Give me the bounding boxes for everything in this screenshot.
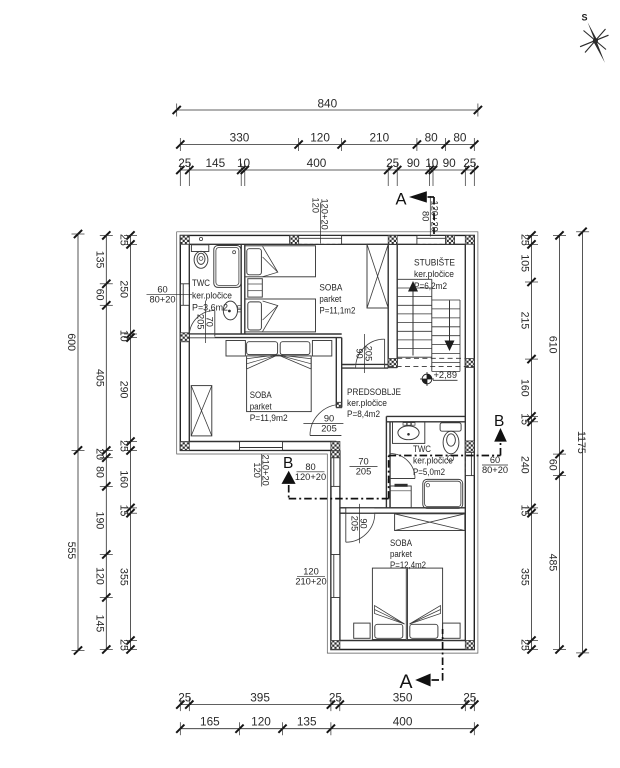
- svg-text:105: 105: [519, 254, 531, 272]
- svg-text:P=11,1m2: P=11,1m2: [319, 306, 355, 317]
- svg-text:B: B: [494, 413, 504, 430]
- svg-text:205: 205: [196, 314, 206, 330]
- svg-text:330: 330: [230, 131, 250, 145]
- svg-text:15: 15: [118, 505, 130, 517]
- svg-text:135: 135: [93, 251, 105, 269]
- svg-text:P=8,4m2: P=8,4m2: [347, 409, 380, 420]
- svg-text:205: 205: [356, 467, 372, 477]
- svg-text:60: 60: [157, 285, 167, 295]
- svg-text:S: S: [582, 13, 588, 23]
- svg-text:20: 20: [93, 448, 105, 460]
- svg-text:120: 120: [251, 715, 271, 729]
- svg-text:290: 290: [118, 381, 130, 399]
- svg-text:parket: parket: [250, 402, 272, 413]
- svg-text:25: 25: [118, 234, 130, 246]
- svg-text:90: 90: [355, 348, 365, 358]
- svg-text:555: 555: [65, 542, 77, 560]
- svg-text:parket: parket: [319, 294, 341, 305]
- svg-text:P=12,4m2: P=12,4m2: [390, 560, 426, 571]
- svg-text:145: 145: [205, 156, 225, 170]
- svg-text:205: 205: [321, 424, 337, 434]
- svg-text:120: 120: [311, 198, 321, 214]
- svg-text:90: 90: [443, 156, 457, 170]
- svg-text:240: 240: [519, 456, 531, 474]
- svg-text:205: 205: [364, 346, 374, 362]
- svg-text:25: 25: [463, 156, 477, 170]
- svg-text:485: 485: [547, 554, 559, 572]
- svg-text:60: 60: [547, 459, 559, 471]
- svg-text:90: 90: [358, 518, 368, 528]
- svg-text:165: 165: [200, 715, 220, 729]
- svg-text:80+20: 80+20: [149, 295, 175, 305]
- svg-text:210+20: 210+20: [295, 577, 326, 587]
- svg-text:+2,89: +2,89: [434, 370, 458, 380]
- svg-text:90: 90: [407, 156, 421, 170]
- svg-text:10: 10: [118, 330, 130, 342]
- svg-text:70: 70: [205, 317, 215, 327]
- svg-text:210: 210: [369, 131, 389, 145]
- svg-text:60: 60: [93, 289, 105, 301]
- svg-text:P=3,6m2: P=3,6m2: [192, 303, 228, 314]
- svg-text:25: 25: [519, 234, 531, 246]
- svg-text:10: 10: [425, 156, 439, 170]
- svg-text:80: 80: [305, 462, 315, 472]
- svg-text:80: 80: [425, 131, 439, 145]
- svg-text:15: 15: [519, 413, 531, 425]
- svg-text:120+20: 120+20: [320, 199, 330, 230]
- svg-text:25: 25: [178, 691, 192, 705]
- svg-text:ker.pločice: ker.pločice: [192, 290, 232, 301]
- svg-text:355: 355: [519, 568, 531, 586]
- svg-text:355: 355: [118, 568, 130, 586]
- svg-text:120: 120: [310, 131, 330, 145]
- svg-text:400: 400: [393, 715, 413, 729]
- svg-text:P=6,2m2: P=6,2m2: [414, 281, 447, 292]
- svg-text:A: A: [396, 190, 407, 208]
- svg-text:25: 25: [463, 691, 477, 705]
- svg-text:P=11,9m2: P=11,9m2: [250, 413, 288, 424]
- svg-text:215: 215: [519, 312, 531, 330]
- svg-text:TWC: TWC: [192, 278, 210, 289]
- svg-text:60: 60: [490, 455, 500, 465]
- svg-text:600: 600: [65, 333, 77, 351]
- svg-text:160: 160: [118, 470, 130, 488]
- svg-text:210+20: 210+20: [261, 455, 271, 486]
- svg-text:120: 120: [93, 567, 105, 585]
- svg-text:15: 15: [519, 505, 531, 517]
- svg-text:ker.pločice: ker.pločice: [413, 455, 453, 466]
- svg-text:B: B: [283, 455, 293, 472]
- svg-text:145: 145: [93, 615, 105, 633]
- svg-text:90: 90: [324, 414, 334, 424]
- svg-text:SOBA: SOBA: [390, 538, 412, 549]
- svg-text:395: 395: [250, 691, 270, 705]
- svg-text:25: 25: [178, 156, 192, 170]
- svg-text:350: 350: [393, 691, 413, 705]
- svg-text:10: 10: [237, 156, 251, 170]
- svg-text:205: 205: [350, 516, 360, 532]
- svg-text:80: 80: [420, 211, 430, 221]
- svg-text:parket: parket: [390, 549, 412, 560]
- svg-text:STUBIŠTE: STUBIŠTE: [414, 257, 455, 268]
- svg-text:120: 120: [303, 567, 319, 577]
- svg-text:ker.pločice: ker.pločice: [414, 269, 454, 280]
- svg-text:840: 840: [317, 97, 337, 111]
- svg-text:SOBA: SOBA: [250, 390, 272, 401]
- svg-text:25: 25: [118, 639, 130, 651]
- svg-text:25: 25: [118, 440, 130, 452]
- svg-text:250: 250: [118, 280, 130, 298]
- svg-text:P=5,0m2: P=5,0m2: [413, 467, 445, 478]
- svg-text:400: 400: [307, 156, 327, 170]
- svg-text:A: A: [400, 671, 413, 693]
- svg-text:160: 160: [519, 379, 531, 397]
- svg-text:SOBA: SOBA: [319, 282, 343, 293]
- svg-text:120+20: 120+20: [295, 472, 326, 482]
- svg-text:25: 25: [386, 156, 400, 170]
- svg-text:PREDSOBLJE: PREDSOBLJE: [347, 387, 401, 398]
- svg-text:135: 135: [297, 715, 317, 729]
- svg-text:190: 190: [93, 512, 105, 530]
- svg-text:25: 25: [519, 639, 531, 651]
- svg-text:80+20: 80+20: [482, 465, 508, 475]
- svg-text:TWC: TWC: [413, 444, 431, 455]
- svg-text:1175: 1175: [575, 431, 587, 454]
- svg-text:610: 610: [547, 336, 559, 354]
- svg-text:405: 405: [93, 369, 105, 387]
- svg-text:80: 80: [453, 131, 467, 145]
- svg-text:70: 70: [358, 457, 368, 467]
- svg-text:ker.pločice: ker.pločice: [347, 398, 387, 409]
- svg-text:25: 25: [329, 691, 343, 705]
- svg-text:120: 120: [252, 462, 262, 478]
- svg-text:80: 80: [93, 466, 105, 478]
